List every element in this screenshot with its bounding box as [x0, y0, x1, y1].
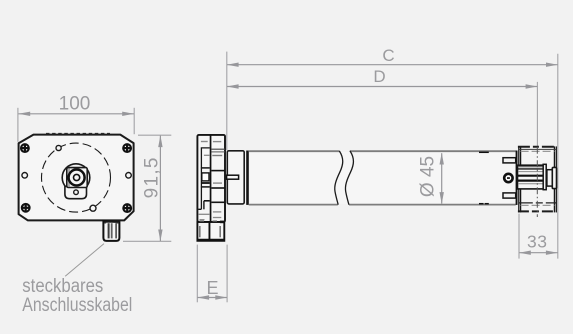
right col gray line	[212, 155, 222, 157]
svg-text:steckbares: steckbares	[22, 276, 103, 297]
bearing circle	[69, 170, 85, 186]
leader line	[65, 244, 104, 277]
head block	[197, 135, 225, 222]
connector ridge 2	[111, 223, 113, 238]
cap joint dash top	[479, 151, 489, 153]
D right extension	[536, 82, 538, 146]
connector top nub left	[104, 221, 107, 224]
left col gray line	[204, 154, 210, 156]
center line vertical dash-dot	[536, 147, 538, 217]
screw TR	[123, 144, 131, 152]
cap joint dashes bottom	[479, 203, 484, 205]
svg-text:Ø 45: Ø 45	[418, 156, 439, 197]
dim 91,5 line	[159, 136, 161, 241]
svg-text:C: C	[382, 46, 394, 65]
prong top	[503, 158, 516, 163]
tube level dash top	[521, 150, 555, 152]
right col gray dash	[213, 141, 221, 143]
E dim line	[198, 297, 227, 299]
connector divider	[209, 222, 211, 241]
bearing housing	[227, 151, 244, 204]
tube interior fill	[249, 152, 515, 204]
connector (front view)	[103, 221, 119, 241]
E ext left	[196, 245, 198, 303]
crown disc left edges	[518, 146, 520, 212]
right col line	[211, 148, 225, 150]
connector bottom thick	[198, 239, 224, 241]
right col thin line	[211, 151, 225, 153]
C dim line	[227, 64, 558, 66]
arrow right	[122, 112, 134, 116]
spline thick	[518, 175, 545, 177]
spline thick2	[518, 180, 545, 182]
prong bottom	[503, 193, 516, 198]
tube top line seg1	[249, 150, 340, 152]
crown disc right edges	[553, 146, 555, 212]
arrow left	[18, 112, 30, 116]
crown bottom dashed thin	[519, 202, 557, 204]
crown bottom edge thick dashed	[518, 210, 557, 212]
hole on circle bottom-right	[90, 205, 96, 211]
crown top edge thick dashed	[518, 146, 557, 148]
svg-text:E: E	[206, 278, 218, 298]
svg-text:Anschlusskabel: Anschlusskabel	[22, 295, 132, 316]
right col gray dash	[213, 211, 221, 213]
left col step line	[198, 148, 210, 209]
left col gray dash low	[200, 219, 205, 221]
right col black line	[211, 170, 225, 172]
connector top nub right	[116, 221, 119, 224]
dim 91,5 extension top	[138, 134, 171, 136]
side hole right	[126, 173, 132, 179]
side hole left	[22, 173, 28, 179]
dim 100 extension line left	[17, 108, 19, 142]
left col line	[201, 167, 210, 169]
arrow line	[441, 153, 443, 203]
connector block (side)	[197, 222, 224, 241]
ext left	[518, 214, 520, 259]
ring thick line	[246, 151, 249, 205]
hub square	[67, 168, 87, 188]
left extension line C/D	[226, 52, 228, 151]
hub square inner shade	[68, 169, 70, 187]
left col gray dash	[201, 141, 208, 143]
shaft cap	[547, 170, 552, 186]
left col line	[204, 200, 210, 202]
E ext right	[226, 245, 228, 303]
svg-text:33: 33	[527, 232, 548, 252]
tube level dash bottom	[521, 204, 555, 206]
notch top right	[220, 221, 224, 224]
connector inner top line	[104, 221, 119, 223]
svg-text:100: 100	[59, 93, 91, 114]
svg-text:D: D	[373, 67, 385, 86]
tube bottom line seg2	[349, 204, 516, 206]
arrow down	[158, 230, 162, 242]
left col thick bar	[201, 182, 209, 184]
gray dashes	[200, 220, 205, 222]
right col gray line	[213, 182, 222, 184]
spline gray2	[518, 183, 545, 185]
shaft center circle	[74, 174, 80, 180]
arrow up	[158, 135, 162, 147]
motor head body octagon	[19, 135, 134, 221]
screw	[504, 174, 512, 182]
break curve 1	[335, 151, 343, 205]
screw BR	[123, 204, 131, 212]
tube end plate	[516, 151, 518, 205]
prong left	[199, 226, 201, 237]
svg-text:91,5: 91,5	[142, 156, 163, 198]
D dim line	[227, 86, 537, 88]
shaft flange	[543, 164, 546, 189]
right col black line	[211, 201, 225, 203]
screw BL	[22, 204, 30, 212]
left col gray	[198, 213, 210, 215]
end knob	[552, 167, 556, 188]
right col black line	[211, 187, 225, 189]
shaft inner top line	[518, 166, 545, 168]
screw TL	[21, 144, 29, 152]
pill hole	[74, 190, 79, 195]
central divider	[210, 135, 212, 222]
tube top line seg2	[350, 150, 516, 152]
left col vert	[203, 201, 205, 210]
spline line	[518, 168, 545, 170]
drive shaft body	[518, 165, 546, 189]
top edge tick row	[46, 133, 110, 135]
crown top inner line	[519, 148, 557, 150]
break curve 2	[345, 151, 353, 205]
crown disc fill	[518, 148, 557, 211]
left col white box	[202, 173, 209, 181]
adjustment pin	[227, 175, 239, 179]
hole on circle top	[56, 145, 61, 150]
prong right	[219, 226, 221, 237]
right col gray dash	[213, 217, 221, 219]
dim 100 extension line right	[133, 108, 135, 134]
tube bottom line seg1	[249, 204, 338, 206]
dim line	[519, 252, 558, 254]
spline gray	[518, 171, 545, 173]
hub pill bottom	[65, 187, 87, 199]
hub outer circle	[62, 164, 90, 192]
dim 100 line	[18, 113, 134, 115]
connector ridge 1	[108, 223, 110, 238]
dim 91,5 extension bottom	[123, 240, 171, 242]
connector ridge 3	[115, 223, 117, 238]
left col line	[201, 186, 210, 188]
bolt circle dashed	[42, 143, 111, 212]
C right extension	[557, 54, 559, 259]
